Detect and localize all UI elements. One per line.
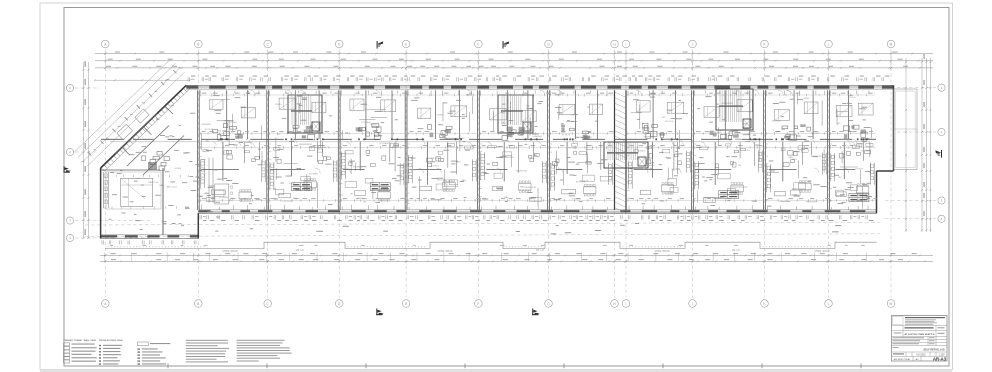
row bubble 1 left [66,84,73,91]
svg-text:KITCHEN: KITCHEN [572,199,581,201]
section flag top 1 [377,41,384,49]
svg-text:VTRM. ROAD: VTRM. ROAD [437,250,452,253]
svg-text:KITCHEN: KITCHEN [228,122,237,124]
svg-text:KITCHEN: KITCHEN [568,148,577,150]
legend block [64,339,292,365]
svg-text:L: L [828,42,830,46]
svg-text:AT LOFTON TOWN SEATTLE: AT LOFTON TOWN SEATTLE [905,333,936,336]
row bubble 3 left [66,217,73,224]
window dimension ticks above top wall [188,76,889,82]
svg-text:WC: WC [363,201,367,203]
column grid dashed lines [105,50,891,298]
bottom dimension lines [100,254,933,256]
svg-text:PA. LO: PA. LO [296,249,304,252]
svg-text:UT 98.75: UT 98.75 [562,134,571,136]
svg-text:LIVING: LIVING [643,158,650,160]
grid bubble A top [102,40,110,48]
svg-text:AR-A3: AR-A3 [933,356,947,361]
window dimension ticks below left unit [102,240,196,244]
grid bubble D top [335,40,343,48]
svg-text:KITCHEN: KITCHEN [362,122,371,124]
grid bubble E bottom [402,300,410,308]
top dimension lines [95,53,933,55]
svg-text:HALL: HALL [504,196,510,199]
grid bubble G bottom [545,300,553,308]
svg-text:WC: WC [277,134,281,136]
svg-text:WC: WC [738,165,742,167]
grid bubble I bottom [622,300,630,308]
svg-text:PA. LO: PA. LO [732,249,740,252]
section flag right [935,150,942,158]
left unit side walls [100,168,102,238]
grid bubble M bottom [887,300,895,308]
svg-text:WC: WC [838,177,842,179]
grid bubble M top [887,40,895,48]
svg-text:UT 98.75: UT 98.75 [859,200,868,202]
svg-text:HALL: HALL [462,179,468,182]
svg-text:LIVING: LIVING [437,115,444,117]
row bubble 4 right [938,215,945,222]
svg-text:ARCHITECTURAL: ARCHITECTURAL [894,358,912,361]
svg-text:NS 16.26: NS 16.26 [672,169,681,171]
row bubble 3 right [938,197,945,204]
grid bubble L bottom [825,300,833,308]
svg-text:LIVING: LIVING [175,168,182,170]
svg-text:NS 16.26: NS 16.26 [713,132,722,134]
svg-text:UT 98.75: UT 98.75 [855,169,864,171]
svg-text:I: I [626,302,627,306]
grid bubble B bottom [195,300,203,308]
svg-text:LIVING: LIVING [275,104,282,106]
fold marks on bottom frame [167,364,169,369]
svg-text:E: E [405,42,407,46]
svg-text:NS 16.26: NS 16.26 [772,120,781,122]
left wing interior [101,105,233,235]
svg-text:KITCHEN: KITCHEN [380,143,389,145]
grid bubble F bottom [475,300,483,308]
svg-text:WC: WC [837,123,841,125]
grid bubble K top [761,40,769,48]
svg-text:KITCHEN: KITCHEN [309,173,318,175]
svg-text:WC: WC [723,196,727,198]
svg-text:PA. LO: PA. LO [536,249,544,252]
svg-text:BEDROOM: BEDROOM [811,156,822,158]
expansion joint double wall H-I [614,90,616,210]
grid bubble C top [264,40,272,48]
section flag top 2 [503,41,510,49]
grid bubble D bottom [335,300,343,308]
grid bubble G top [545,40,553,48]
grid bubble E top [402,40,410,48]
left dimension lines [83,62,85,238]
svg-text:LIVING: LIVING [666,193,673,195]
svg-text:M: M [890,302,893,306]
svg-text:VTRM. ROAD: VTRM. ROAD [814,250,829,253]
svg-text:B: B [197,42,199,46]
svg-text:HALL: HALL [159,184,165,187]
building right end walls [893,85,895,171]
row bubble 1 right [938,84,945,91]
dim connectors [103,253,105,262]
grid bubble B top [195,40,203,48]
svg-text:L: L [828,302,830,306]
row bubble 4 left [66,234,73,241]
stair core 1 [288,95,322,133]
svg-text:BED 15.04: BED 15.04 [149,182,160,184]
svg-text:F: F [477,302,479,306]
row bubble 2 right [938,128,945,135]
grid bubble J bottom [689,300,697,308]
svg-text:BEDROOM: BEDROOM [525,187,536,189]
grid bubble L top [825,40,833,48]
grid bubble K bottom [761,300,769,308]
svg-text:KITCHEN: KITCHEN [353,167,362,169]
grid bubble H bottom [611,300,619,308]
stair core 4 [604,142,648,168]
corridor wall [101,138,124,140]
svg-text:0-0-2015: 0-0-2015 [916,354,926,356]
right terrace outline [894,89,917,170]
diagonal wall left wing [101,85,187,168]
svg-text:NS 16.26: NS 16.26 [665,121,674,123]
svg-text:WC: WC [206,141,210,143]
svg-text:12.4 m: 12.4 m [289,183,295,185]
grid bubble I top [622,40,630,48]
svg-text:F: F [477,42,479,46]
svg-text:LIVING: LIVING [803,98,810,100]
svg-text:E: E [405,302,407,306]
terrace stepped edge [105,242,877,248]
stair core 3 [716,89,753,130]
svg-text:WC: WC [350,194,354,196]
svg-text:BED 15.04: BED 15.04 [167,187,178,189]
svg-text:LIVING: LIVING [638,150,645,152]
labels between building and dims [551,232,556,235]
svg-text:12.4 m: 12.4 m [293,198,299,200]
svg-text:SELF RETAIL (+0): SELF RETAIL (+0) [923,349,944,352]
row grid dashed lines [75,88,936,238]
section flag left [64,166,72,173]
svg-text:DETAILED WALL SEAL: DETAILED WALL SEAL [99,339,124,342]
svg-text:M: M [890,42,893,46]
left unit lower wall [101,235,199,239]
grid line A-B top extension [95,79,190,81]
svg-text:NS 16.26: NS 16.26 [437,180,446,182]
svg-text:KITCHEN: KITCHEN [861,151,870,153]
svg-text:I: I [626,42,627,46]
row bubble 2 left [66,148,73,155]
grid bubble F top [475,40,483,48]
title block [892,316,948,362]
svg-text:PRIMARY THEME - WALL SEAL: PRIMARY THEME - WALL SEAL [64,339,97,342]
svg-text:WC: WC [587,107,591,109]
top dim connector ticks [104,51,106,71]
svg-text:LIVING: LIVING [357,198,364,200]
svg-text:UT 98.75: UT 98.75 [431,165,440,167]
svg-text:KITCHEN: KITCHEN [576,181,585,183]
svg-text:HALL: HALL [501,112,507,115]
grid bubble A bottom [102,300,110,308]
section flag bottom 2 [532,309,540,316]
svg-text:VTRM. ROAD: VTRM. ROAD [654,250,669,253]
svg-text:HALL: HALL [789,156,795,159]
grid bubble C bottom [264,300,272,308]
unit interior partitions and furniture [199,90,877,210]
svg-text:NS 16.26: NS 16.26 [811,133,820,135]
svg-text:12.4 m: 12.4 m [744,150,750,152]
building outer wall top [186,85,893,89]
svg-text:WC: WC [662,117,666,119]
svg-text:HALL: HALL [744,123,750,126]
svg-text:HALL: HALL [501,122,507,125]
diagonal dimension lines [74,59,185,166]
section flag bottom 1 [376,309,384,316]
right dimension lines [905,58,907,232]
svg-text:NS 16.26: NS 16.26 [431,158,440,160]
grid bubble H top [611,40,619,48]
window dimension ticks below bottom wall [200,215,873,221]
svg-text:HALL: HALL [456,161,462,164]
party walls at column grid [196,90,198,210]
svg-text:VTRM. ROAD: VTRM. ROAD [222,250,237,253]
grid bubble J top [689,40,697,48]
building outer wall bottom (main) [198,210,876,213]
svg-text:NS 16.26: NS 16.26 [205,129,214,131]
svg-text:KITCHEN: KITCHEN [218,131,227,133]
svg-text:BEDROOM: BEDROOM [516,171,527,173]
svg-text:KITCHEN: KITCHEN [219,197,228,199]
svg-text:NS 16.26: NS 16.26 [284,201,293,203]
svg-text:12.4 m: 12.4 m [849,97,855,99]
stair core 2 [498,95,533,133]
svg-text:B: B [197,302,199,306]
svg-text:WC: WC [748,112,752,114]
